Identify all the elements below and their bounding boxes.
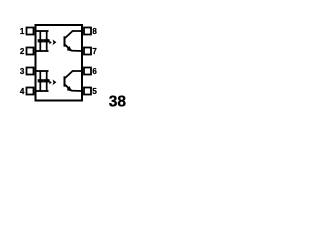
svg-text:38: 38 (109, 93, 127, 110)
Q1 emitter wire to pin 7 (65, 44, 82, 51)
wire pin3 anode (36, 70, 49, 72)
LED D1a branch wire (39, 31, 41, 51)
LED D2a (anti-parallel pair, down) (38, 79, 44, 83)
light emission arrows channel 2 (49, 79, 56, 85)
Q2 emitter wire to pin 5 (65, 84, 82, 91)
LED D2b branch wire (46, 71, 48, 91)
pin 5 pad (84, 88, 91, 95)
phototransistor Q1 base bar (64, 36, 66, 46)
svg-text:8: 8 (92, 27, 97, 36)
svg-text:6: 6 (92, 67, 97, 76)
pin 8 pad (84, 28, 91, 35)
svg-text:1: 1 (20, 27, 25, 36)
svg-text:3: 3 (20, 67, 25, 76)
pin 2 pad (27, 48, 34, 55)
Q1 emitter arrow (67, 46, 72, 51)
LED D2b (anti-parallel pair, up) (44, 78, 50, 82)
svg-text:4: 4 (20, 87, 25, 96)
svg-text:5: 5 (92, 87, 97, 96)
wire pin4 cathode (36, 90, 49, 92)
pin 6 pad (84, 68, 91, 75)
LED D1a (anti-parallel pair, down) (38, 39, 44, 43)
light emission arrows channel 1 (49, 39, 56, 45)
Q2 collector wire to pin 6 (65, 71, 82, 79)
pin 7 pad (84, 48, 91, 55)
pin 4 pad (27, 88, 34, 95)
Q2 emitter arrow (67, 86, 72, 91)
LED D1b branch wire (46, 31, 48, 51)
svg-text:2: 2 (20, 47, 25, 56)
svg-text:7: 7 (92, 47, 97, 56)
Q1 collector wire to pin 8 (65, 31, 82, 39)
LED D1b (anti-parallel pair, up) (44, 38, 50, 42)
LED D2a branch wire (39, 71, 41, 91)
phototransistor Q2 base bar (64, 76, 66, 86)
IC package U1 outline (36, 25, 83, 101)
pin 1 pad (27, 28, 34, 35)
wire pin2 cathode (36, 50, 49, 52)
wire pin1 anode (36, 30, 49, 32)
pin 3 pad (27, 68, 34, 75)
